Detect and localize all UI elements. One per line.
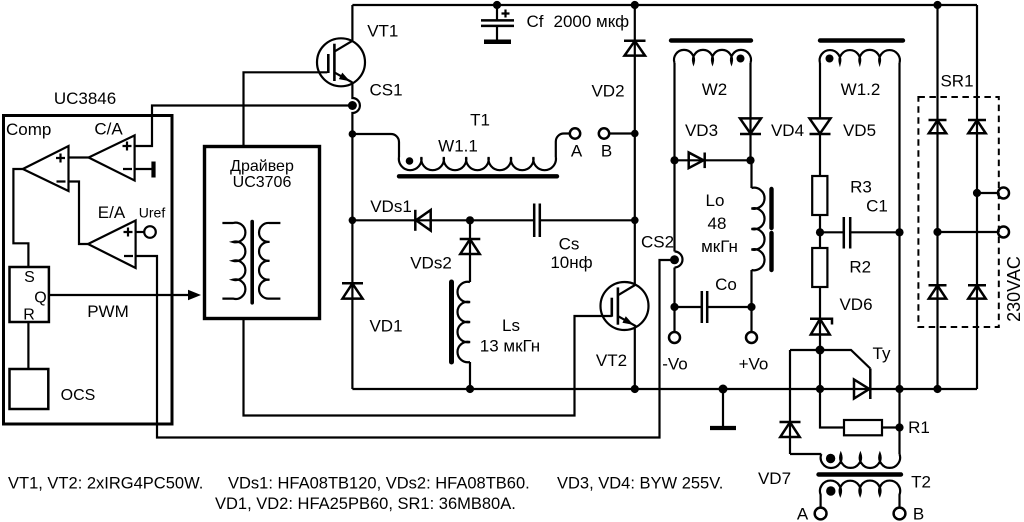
svg-text:CS2: CS2 — [641, 233, 674, 252]
svg-text:VDs1: VDs1 — [370, 197, 412, 216]
svg-text:T1: T1 — [470, 111, 490, 130]
wire to W1.1 left lead — [352, 134, 399, 157]
wire E/A - input to CS2 feedback — [136, 256, 671, 438]
svg-text:Co: Co — [715, 275, 737, 294]
thyristor Ty — [854, 344, 891, 399]
node rail junction at 820 — [816, 385, 824, 393]
bridge diode top-right — [968, 120, 986, 133]
bottom rail — [352, 388, 977, 390]
diode VD5 — [810, 118, 877, 140]
svg-text:VT1, VT2: 2xIRG4PC50W.: VT1, VT2: 2xIRG4PC50W. — [8, 475, 203, 493]
wire Comp - input to E/A output — [69, 182, 89, 245]
svg-text:B: B — [601, 142, 612, 161]
svg-text:VD3: VD3 — [685, 121, 718, 140]
T1 core — [399, 174, 557, 178]
bridge diode bottom-right — [968, 285, 986, 298]
VD2 branch vertical — [634, 5, 636, 285]
svg-text:VDs1: HFA08TB120, VDs2: HFA08T: VDs1: HFA08TB120, VDs2: HFA08TB60. — [228, 475, 530, 493]
caption line 1 — [8, 475, 723, 493]
comparator Comp — [23, 146, 69, 191]
bridge SR1 dashed box — [918, 72, 998, 328]
terminal A — [570, 128, 583, 160]
terminal +Vo — [739, 332, 769, 374]
wire W1.1 right lead to terminal A — [556, 134, 571, 158]
node Co right junction — [747, 303, 755, 311]
svg-text:VD2: VD2 — [591, 82, 624, 101]
wire B to VD2 branch — [609, 132, 635, 134]
node VD2/B junction — [631, 130, 639, 138]
svg-text:+Vo: +Vo — [739, 355, 769, 374]
wire W2 left leg — [673, 63, 675, 252]
driver transformer right winding — [259, 223, 280, 299]
node Ls bottom junction — [466, 385, 474, 393]
node SR1 top junction — [933, 1, 941, 9]
winding W2 core — [671, 38, 751, 42]
diode VDs2 — [410, 239, 480, 273]
diode VD4 — [740, 118, 804, 140]
wire gate node to thyristor gate — [820, 350, 870, 369]
IC UC3846 box — [4, 89, 173, 424]
svg-text:UC3706: UC3706 — [233, 174, 292, 191]
Ls core — [449, 282, 454, 362]
svg-text:VD4: VD4 — [771, 121, 804, 140]
inductor Lo — [701, 160, 764, 331]
svg-text:VD5: VD5 — [843, 121, 876, 140]
op-amp C/A — [89, 120, 135, 181]
driver transformer left winding — [222, 223, 245, 299]
terminal -Vo — [662, 332, 688, 374]
svg-text:C/A: C/A — [94, 120, 123, 139]
zener VD6 — [810, 287, 873, 350]
Uref terminal — [136, 205, 166, 238]
diode VD1 — [342, 283, 403, 335]
winding W1.2 core — [820, 38, 903, 42]
resistor R2 — [812, 248, 871, 287]
svg-text:Драйвер: Драйвер — [230, 158, 294, 175]
diode VD7 — [758, 350, 801, 488]
svg-text:Ty: Ty — [873, 344, 891, 363]
resistor R1 — [844, 418, 930, 437]
op-amp E/A — [88, 203, 136, 268]
svg-text:230VAC: 230VAC — [1004, 256, 1024, 322]
svg-text:VD3, VD4: BYW 255V.: VD3, VD4: BYW 255V. — [557, 475, 723, 493]
wire W1.2 right leg down to T2 — [898, 63, 900, 454]
wire C/A + input up to CS1 sense — [135, 106, 349, 147]
svg-text:мкГн: мкГн — [701, 237, 738, 256]
transformer T1 winding W1.1 — [399, 111, 556, 171]
wire W2 right leg — [749, 63, 751, 160]
terminal A of T2 — [797, 505, 827, 522]
node C1 right junction — [895, 228, 903, 236]
capacitor Cs — [534, 204, 592, 273]
node W1.1 left junction — [349, 130, 357, 138]
svg-text:Q: Q — [34, 290, 46, 307]
capacitor Cf — [481, 1, 629, 42]
T2 core — [819, 472, 902, 476]
svg-text:-Vo: -Vo — [662, 355, 688, 374]
svg-text:W1.2: W1.2 — [841, 80, 881, 99]
svg-text:VD1: VD1 — [369, 317, 402, 336]
transistor VT1 — [317, 22, 398, 87]
svg-text:Comp: Comp — [6, 120, 51, 139]
svg-text:10нф: 10нф — [550, 253, 592, 272]
wire R input to OCS — [27, 322, 29, 369]
node VDs2 junction — [466, 216, 474, 224]
bridge left column — [936, 5, 938, 389]
VDs2 / Ls branch vertical — [469, 220, 471, 282]
PWM wire with arrow — [49, 290, 201, 321]
node VD3 right junction — [746, 156, 754, 164]
node VT2 emitter junction — [631, 385, 639, 393]
wire VDs snubber row right part — [540, 219, 635, 221]
svg-text:CS1: CS1 — [369, 81, 402, 100]
svg-text:A: A — [571, 142, 583, 161]
svg-text:E/A: E/A — [98, 203, 126, 222]
current sensor CS2 — [641, 233, 683, 268]
svg-text:Uref: Uref — [139, 205, 166, 221]
wire CS2 to -Vo — [673, 268, 675, 332]
C/A - input terminal bar — [135, 162, 154, 178]
svg-text:2000 мкф: 2000 мкф — [554, 12, 630, 31]
svg-text:VD1, VD2: HFA25PB60, SR1: 36MB: VD1, VD2: HFA25PB60, SR1: 36MB80A. — [215, 495, 516, 513]
wire C/A output to Comp + input — [69, 156, 89, 158]
transformer T2 secondary — [820, 481, 900, 508]
current sensor CS1 — [348, 81, 403, 111]
wire VD3 row — [675, 159, 751, 161]
node left rail / snubber junction — [349, 217, 357, 225]
wire R3 to R2 — [819, 215, 821, 248]
svg-text:W1.1: W1.1 — [438, 137, 478, 156]
capacitor C1 — [820, 197, 900, 249]
terminal B — [599, 128, 612, 160]
svg-text:VDs2: VDs2 — [410, 254, 452, 273]
diode VD2 — [591, 41, 645, 101]
svg-text:VD6: VD6 — [839, 295, 872, 314]
wire driver output to VT2 gate — [244, 316, 612, 416]
wire VDs snubber row left part — [352, 219, 534, 221]
svg-text:Lo: Lo — [706, 191, 725, 210]
wire VT1 collector to top rail — [351, 5, 353, 41]
svg-text:S: S — [24, 269, 35, 286]
svg-text:13 мкГн: 13 мкГн — [480, 337, 540, 356]
svg-text:R1: R1 — [908, 418, 930, 437]
capacitor Co — [675, 275, 752, 323]
bridge right column — [976, 5, 978, 389]
svg-text:VT2: VT2 — [596, 351, 627, 370]
node Co left junction — [670, 303, 678, 311]
wire driver output to VT1 gate — [244, 72, 328, 146]
wire gate node to VD7 — [790, 349, 820, 351]
svg-text:VT1: VT1 — [367, 22, 398, 41]
AC terminal lower — [933, 227, 1009, 238]
svg-text:C1: C1 — [866, 197, 888, 216]
svg-text:VD7: VD7 — [758, 469, 791, 488]
node C1 left junction — [816, 228, 824, 236]
node VD2 line / snubber junction — [631, 217, 639, 225]
diode VDs1 — [370, 197, 430, 231]
svg-text:OCS: OCS — [61, 387, 96, 404]
winding W1.2 — [820, 50, 900, 99]
driver transformer core — [250, 222, 254, 303]
winding W2 — [674, 50, 751, 99]
node VD3 left junction — [670, 156, 678, 164]
terminal B of T2 — [894, 505, 925, 522]
svg-text:A: A — [797, 505, 809, 522]
resistor R3 — [812, 134, 872, 215]
node VD2 top junction — [631, 1, 639, 9]
top rail — [352, 4, 977, 6]
svg-text:R: R — [23, 307, 35, 324]
svg-text:R2: R2 — [849, 258, 871, 277]
wire W1.2 left leg — [819, 63, 821, 118]
bridge diode top-left — [929, 120, 947, 133]
diode VD3 — [685, 121, 718, 168]
svg-text:R3: R3 — [850, 178, 872, 197]
AC terminal upper — [973, 188, 1009, 199]
svg-text:B: B — [913, 505, 924, 522]
node thyristor gate junction — [816, 346, 825, 355]
Lo core (gapped) — [769, 189, 773, 270]
svg-text:PWM: PWM — [87, 302, 129, 321]
svg-text:T2: T2 — [911, 473, 931, 492]
wire VD6 node down to R1 — [820, 350, 844, 428]
svg-text:48: 48 — [708, 214, 727, 233]
svg-text:Cf: Cf — [527, 12, 544, 31]
wire Comp output to S input — [13, 169, 28, 267]
node R1 right junction — [895, 423, 903, 431]
svg-text:Cs: Cs — [559, 235, 580, 254]
driver UC3706 box — [205, 147, 320, 319]
bridge diode bottom-left — [929, 285, 947, 298]
inductor Ls — [457, 282, 540, 363]
transistor VT2 — [596, 282, 649, 370]
node rail junction at 899.5 — [895, 385, 903, 393]
ground — [710, 385, 736, 429]
node SR1 bottom junction — [933, 385, 941, 393]
OCS block — [10, 369, 96, 409]
transformer T2 primary — [790, 454, 900, 468]
svg-text:W2: W2 — [702, 80, 728, 99]
wire VT1 emitter down with CS1 hop and left rail — [352, 83, 360, 389]
SR latch — [10, 267, 49, 324]
wire VT2 emitter to rail — [634, 327, 636, 389]
svg-text:UC3846: UC3846 — [54, 89, 116, 108]
svg-text:Ls: Ls — [502, 316, 520, 335]
svg-text:SR1: SR1 — [940, 72, 973, 91]
